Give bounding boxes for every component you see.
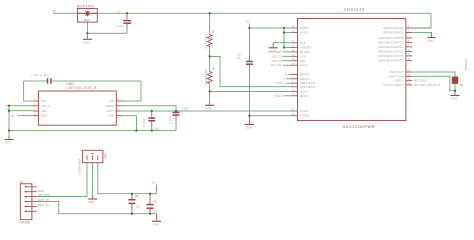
svg-text:VSS: VSS (108, 114, 114, 118)
svg-text:ADS1148: ADS1148 (344, 7, 366, 12)
pin numbers U1 right (408, 26, 410, 85)
node MCP gnd junction (86, 32, 88, 34)
svg-text:9: 9 (408, 45, 409, 47)
svg-text:GND: GND (88, 201, 94, 204)
pin stubs J3 (25, 187, 37, 212)
svg-text:/CF: /CF (109, 99, 114, 103)
wire VOUT to AVSS (121, 110, 291, 112)
capacitor C_FLY 4.7uF (24, 73, 141, 84)
svg-text:22: 22 (292, 90, 294, 92)
svg-text:4: 4 (34, 114, 35, 116)
svg-text:PT100_B: PT100_B (274, 96, 284, 98)
svg-text:AGND: AGND (5, 142, 12, 145)
wire VDD stub (18, 115, 33, 117)
wire C1RES over (121, 106, 176, 111)
capacitor C8 (128, 194, 140, 214)
svg-text:SCLK: SCLK (300, 63, 308, 67)
svg-text:VSS_2: VSS_2 (41, 104, 50, 108)
ground AGND bottom rail (152, 214, 161, 227)
pin names U1 left (300, 26, 315, 118)
pin names U1 right (378, 26, 404, 87)
svg-text:0R: 0R (460, 84, 463, 87)
node divider tap1 (209, 55, 211, 57)
svg-text:REFN1: REFN1 (300, 77, 310, 81)
programming header TC2030 (77, 150, 107, 174)
svg-text:5V: 5V (246, 20, 250, 24)
wire DIN stub (283, 60, 292, 62)
svg-text:5V: 5V (11, 115, 14, 118)
node VSS_2 (8, 105, 10, 107)
ground GND TC2030 (88, 196, 97, 204)
svg-text:14: 14 (292, 50, 294, 52)
svg-text:AGND: AGND (83, 42, 90, 45)
svg-text:VOUT: VOUT (106, 109, 114, 113)
wire CLK (273, 42, 291, 44)
node RESET branch (283, 46, 285, 48)
svg-text:25: 25 (408, 75, 410, 77)
svg-text:REFP1: REFP1 (300, 72, 310, 76)
svg-text:15: 15 (292, 31, 294, 33)
wire MCU_RX run (37, 202, 157, 214)
wire VREFCOM (412, 76, 455, 90)
pin numbers U1 left (292, 26, 294, 116)
ground GND on REFN0 (428, 33, 436, 43)
node RD tap (8, 110, 10, 112)
wire 5V stub (248, 24, 250, 29)
ground AGND left rail (5, 136, 14, 144)
pin stubs U$11 (33, 101, 122, 116)
svg-text:PT100_A: PT100_A (276, 82, 286, 85)
node C8 top (131, 193, 133, 195)
wire DVDD (249, 27, 291, 29)
svg-text:IEXC1: IEXC1 (300, 89, 309, 93)
pin numbers U$11 (34, 99, 118, 116)
pin stubs U1 right (406, 28, 412, 85)
resistor RESISTOR2 (204, 67, 215, 85)
svg-text:26: 26 (408, 79, 410, 81)
svg-text:21: 21 (292, 94, 294, 96)
svg-text:6: 6 (38, 210, 39, 212)
wire divider mid (209, 47, 211, 72)
resistor RESISTOR1 (204, 30, 215, 49)
wire divider top lead (209, 13, 211, 34)
wire divider bottom (209, 84, 211, 103)
node C9 bottom (149, 213, 151, 215)
wire resistor bottom (454, 84, 456, 91)
svg-text:~RD: ~RD (41, 109, 47, 113)
node C7 top (126, 12, 128, 14)
svg-text:23: 23 (408, 83, 410, 85)
svg-text:19: 19 (292, 63, 294, 65)
svg-text:FUTURE: FUTURE (20, 221, 31, 225)
wire TC2030 pin1 down (86, 163, 88, 197)
svg-text:DGND: DGND (245, 127, 252, 130)
svg-text:TC2030-MCP: TC2030-MCP (77, 158, 81, 174)
svg-text:AGND: AGND (451, 98, 458, 101)
svg-text:DVDD: DVDD (300, 26, 309, 30)
svg-text:~RESET: ~RESET (300, 45, 312, 49)
svg-text:6: 6 (117, 109, 118, 111)
node divider tap2 (209, 90, 211, 92)
svg-text:13: 13 (292, 55, 294, 57)
svg-text:C_OUT: C_OUT (143, 118, 146, 127)
svg-text:1: 1 (38, 185, 39, 187)
svg-text:AVSS: AVSS (300, 109, 308, 113)
op-amp U$11 LM7705 box (38, 82, 116, 125)
svg-text:6: 6 (408, 31, 409, 33)
svg-text:IEXC2: IEXC2 (300, 94, 309, 98)
svg-text:24: 24 (408, 70, 410, 72)
svg-text:1: 1 (292, 73, 293, 75)
pin arrows J3 (26, 186, 28, 213)
wire MCP1541 gnd pin (86, 22, 88, 36)
svg-text:AIN1/IEXC/GPIO3: AIN1/IEXC/GPIO3 (378, 40, 404, 44)
svg-text:ADC_DIN: ADC_DIN (271, 60, 281, 63)
capacitor C_BYP 4.7uF (169, 108, 188, 131)
svg-text:GND: GND (39, 190, 45, 193)
wire CS stub (283, 55, 292, 57)
wire CFplus left (24, 81, 33, 101)
svg-text:AIN0/IEXC/GPIO2: AIN0/IEXC/GPIO2 (378, 36, 404, 40)
svg-text:START: START (300, 50, 310, 54)
svg-text:DOUT/~DRDY: DOUT/~DRDY (383, 83, 403, 87)
svg-text:1: 1 (34, 99, 35, 101)
ground DGND symbol (245, 116, 254, 130)
svg-text:U$11: U$11 (67, 82, 75, 86)
wire VSS_2 left (7, 105, 33, 107)
pin names U$11 (41, 99, 114, 118)
wire tap1 to AIN6 (210, 56, 291, 86)
svg-text:12: 12 (408, 59, 410, 61)
pin stubs U1 left (291, 28, 298, 116)
svg-text:ADC_MISO_ADC_DOUT: ADC_MISO_ADC_DOUT (414, 84, 441, 87)
svg-text:REFP0/GPIO0: REFP0/GPIO0 (383, 26, 404, 30)
wire left rail down (8, 106, 10, 137)
op-amp U1 ADS1248 box (298, 7, 406, 129)
svg-text:C1RES: C1RES (105, 104, 114, 108)
wire VREF top (53, 12, 431, 14)
wire VREFOUT (412, 72, 455, 77)
svg-text:10: 10 (408, 50, 410, 52)
svg-text:5V: 5V (152, 182, 155, 185)
wire C7 bottom return (87, 32, 127, 34)
svg-text:AIN2/IEXC/GPIO4: AIN2/IEXC/GPIO4 (378, 45, 404, 49)
wire 5V bottom stub (156, 185, 158, 194)
svg-text:0.1µF: 0.1µF (117, 25, 124, 28)
node DVDD branch (283, 27, 285, 29)
node left rail bottom (8, 129, 10, 131)
wire SET_RUN run (37, 196, 87, 198)
svg-text:7: 7 (117, 104, 118, 106)
wire REFP0 drop (412, 13, 431, 28)
ground AGND under divider (205, 102, 214, 110)
node divider top (209, 12, 211, 14)
wire VSS return bus (9, 130, 176, 132)
svg-text:8: 8 (408, 41, 409, 43)
svg-text:AGND: AGND (152, 223, 159, 226)
svg-text:MCU_TX: MCU_TX (39, 204, 50, 207)
wire AIN6 stub (287, 82, 292, 84)
capacitor C6 5V bypass (237, 28, 253, 116)
svg-text:4.7µF C_FLY: 4.7µF C_FLY (31, 73, 49, 77)
svg-text:5: 5 (117, 114, 118, 116)
node C8 bottom (131, 213, 133, 215)
svg-text:18: 18 (292, 41, 294, 43)
svg-text:V-: V- (283, 79, 285, 81)
wire REFP1 stub (289, 73, 292, 75)
wire VSS pin drop (121, 116, 136, 131)
svg-text:10µF: 10µF (154, 127, 160, 130)
svg-text:REFN0/GPIO1: REFN0/GPIO1 (383, 31, 404, 35)
svg-text:17: 17 (292, 46, 294, 48)
wire REFN0 (412, 32, 431, 34)
wire REFN1 stub (287, 78, 292, 80)
wire CFminus right drop (121, 81, 141, 101)
svg-text:5: 5 (408, 26, 409, 28)
capacitor C9 (147, 194, 159, 214)
svg-text:3: 3 (292, 81, 293, 83)
svg-text:C_BYP: C_BYP (169, 116, 172, 124)
node AVDD branch (283, 31, 285, 33)
wire RD (9, 110, 33, 112)
wire AVDD (284, 32, 291, 34)
svg-text:MCP1541: MCP1541 (77, 4, 95, 8)
svg-text:ADC_START: ADC_START (268, 51, 282, 54)
svg-text:AIN7/IEXC: AIN7/IEXC (300, 85, 315, 89)
wire 5V bus down (283, 28, 285, 47)
node C9 top (149, 193, 151, 195)
node C_BYP top (175, 110, 177, 112)
wire tap2 to AIN7 (210, 90, 291, 92)
svg-text:ADC_SCK: ADC_SCK (271, 64, 282, 67)
svg-text:RESISTOR1: RESISTOR1 (204, 33, 208, 48)
wire DGND (249, 115, 291, 117)
svg-text:2: 2 (34, 104, 35, 106)
svg-text:~CS: ~CS (300, 54, 306, 58)
svg-text:1µF: 1µF (136, 206, 141, 209)
svg-text:ADC_CS: ADC_CS (272, 55, 282, 58)
wire IEXC2 stub (285, 95, 292, 97)
ground AGND vref (451, 91, 460, 101)
svg-text:LM7705_DGK_8: LM7705_DGK_8 (67, 86, 97, 90)
svg-text:ADJ: ADJ (84, 18, 90, 22)
svg-text:ADS1248IPWR: ADS1248IPWR (343, 124, 376, 129)
capacitor C7 (117, 11, 131, 34)
svg-text:11: 11 (408, 54, 410, 56)
node VSS join (135, 129, 137, 131)
wire TC2030 pin3 to 5V rail (98, 163, 157, 194)
svg-text:4.7µF: 4.7µF (182, 108, 189, 111)
svg-text:AVDD: AVDD (300, 31, 308, 35)
svg-text:5V: 5V (53, 9, 57, 13)
svg-text:3: 3 (34, 109, 35, 111)
svg-text:DIN: DIN (300, 59, 305, 63)
wire REFP0 (412, 27, 431, 29)
svg-text:4: 4 (292, 85, 293, 87)
node vref gnd (454, 90, 456, 92)
wire SCLK stub (283, 64, 292, 66)
wire RESET (284, 46, 291, 48)
ground AGND on CLK (269, 43, 278, 53)
svg-text:1µF: 1µF (237, 57, 242, 60)
svg-text:GND: GND (428, 40, 434, 43)
node C_OUT bottom (151, 129, 153, 131)
svg-text:27: 27 (292, 114, 294, 116)
svg-text:16: 16 (292, 26, 294, 28)
svg-text:7: 7 (408, 36, 409, 38)
svg-text:TAG: TAG (103, 153, 107, 158)
connector J3 (20, 180, 32, 225)
svg-text:AGND: AGND (206, 107, 213, 110)
svg-text:1µF: 1µF (154, 210, 159, 213)
resistor R5 vref (452, 59, 468, 87)
wire START stub (283, 51, 292, 53)
svg-text:AIN4/IEXC/GPIO6: AIN4/IEXC/GPIO6 (378, 54, 404, 58)
svg-text:ADC_DRDY: ADC_DRDY (414, 80, 427, 83)
svg-text:AIN5/IEXC/GPIO7: AIN5/IEXC/GPIO7 (378, 58, 404, 62)
svg-text:8: 8 (117, 99, 118, 101)
svg-text:2: 2 (292, 77, 293, 79)
svg-text:JP5CAP: JP5CAP (464, 59, 468, 71)
node DGND branch (248, 115, 250, 117)
capacitor C_OUT (143, 111, 160, 131)
svg-text:20: 20 (292, 59, 294, 61)
svg-text:28: 28 (292, 109, 294, 111)
pin numbers J3 (38, 185, 39, 212)
wire TC2030 pin2 down (92, 163, 94, 197)
svg-text:AIN3/IEXC/GPIO5: AIN3/IEXC/GPIO5 (378, 49, 404, 53)
svg-text:CLK: CLK (300, 41, 306, 45)
voltage reference U2 MCP1541 (77, 4, 98, 22)
node C_OUT top (151, 110, 153, 112)
svg-text:VDD: VDD (41, 114, 47, 118)
svg-text:DGND: DGND (300, 114, 309, 118)
ground AGND under MCP1541 (83, 36, 92, 45)
svg-text:CF+: CF+ (41, 99, 47, 103)
node 5V DVDD (248, 27, 250, 29)
